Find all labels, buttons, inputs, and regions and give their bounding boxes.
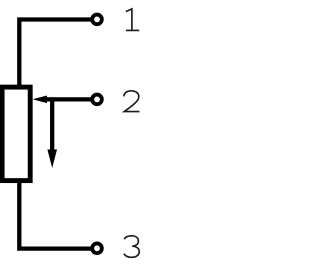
wire: top lead from body to terminal 1 <box>19 20 91 88</box>
resistor body (potentiometer element) <box>2 87 30 181</box>
wire: wiper lead to terminal 2 <box>40 97 91 101</box>
terminal 3 (open circle) <box>92 243 102 253</box>
wiper arrowhead pointing left into body <box>33 96 47 104</box>
adjustment arrowhead pointing down <box>47 150 57 169</box>
pin label 2 <box>124 91 140 112</box>
pin label 1 <box>126 9 140 31</box>
wire: adjustment stem down from wiper <box>50 97 54 151</box>
terminal 2 (open circle) <box>92 95 102 105</box>
pin label 3 <box>124 236 139 257</box>
wire: bottom lead from body to terminal 3 <box>19 181 91 249</box>
terminal 1 (open circle) <box>92 15 102 25</box>
potentiometer schematic <box>0 0 140 265</box>
